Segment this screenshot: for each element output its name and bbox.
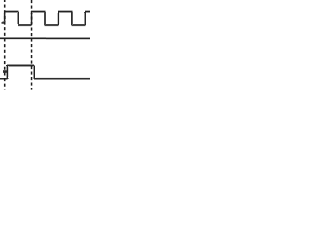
- dashed cursor line 1: [5, 0, 32, 90]
- clock rise 3 edge: [57, 13, 58, 24]
- pulse top line: [7, 64, 34, 65]
- middle signal line left: [0, 37, 46, 38]
- pulse trigger stub: [3, 70, 7, 71]
- background: [0, 0, 90, 90]
- clock rise 2 edge: [30, 13, 31, 24]
- pulse baseline left: [0, 78, 9, 79]
- clock rise 4 edge: [84, 12, 85, 24]
- clock rise 4 corner: [84, 12, 85, 13]
- clock low 1-2: [18, 24, 32, 25]
- pulse fall edge: [33, 66, 34, 78]
- clock low 3-4: [71, 24, 85, 25]
- clock fall 2 edge: [44, 12, 45, 25]
- clock high 1: [4, 10, 19, 11]
- clock low 2-3: [44, 24, 58, 25]
- clock high 4: [85, 10, 90, 11]
- clock high 2: [31, 10, 46, 11]
- dashed cursor line 2: [31, 0, 33, 90]
- clock fall 1 edge: [17, 12, 18, 24]
- pulse baseline right: [34, 78, 91, 79]
- clock high 3: [58, 10, 73, 11]
- clock start tail: [1, 22, 4, 23]
- clock rise 1 edge: [3, 13, 4, 21]
- clock fall 3 edge: [71, 12, 72, 25]
- digital timing diagram, 90x90: [0, 0, 90, 90]
- pulse rise edge: [6, 66, 7, 78]
- middle signal line right: [46, 37, 90, 38]
